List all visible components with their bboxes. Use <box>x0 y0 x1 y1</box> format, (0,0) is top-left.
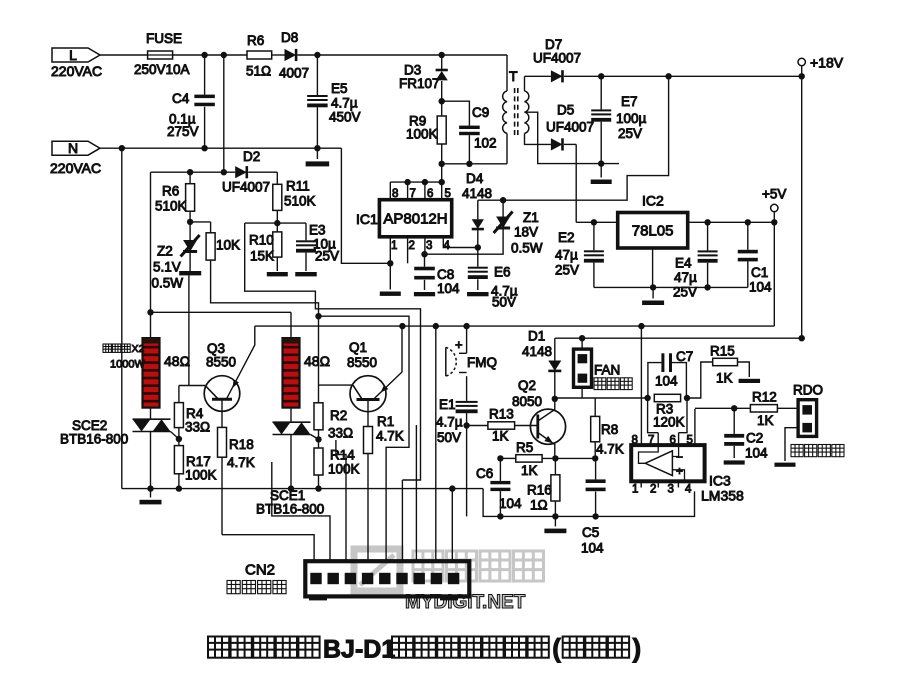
svg-text:100K: 100K <box>406 127 438 142</box>
svg-text:Z2: Z2 <box>157 244 173 259</box>
svg-text:275V: 275V <box>167 124 199 139</box>
svg-text:T: T <box>509 68 518 84</box>
svg-text:R6: R6 <box>162 184 179 199</box>
svg-text:C2: C2 <box>746 431 763 446</box>
svg-text:1000W: 1000W <box>110 359 145 371</box>
svg-text:5: 5 <box>687 435 693 447</box>
svg-text:E7: E7 <box>621 94 638 109</box>
svg-text:1K: 1K <box>716 371 733 386</box>
svg-text:Q2: Q2 <box>518 378 536 393</box>
svg-text:R2: R2 <box>330 408 347 423</box>
svg-text:D8: D8 <box>281 30 298 45</box>
svg-text:R12: R12 <box>752 390 777 405</box>
svg-text:BTB16-800: BTB16-800 <box>60 432 128 447</box>
svg-text:4.7K: 4.7K <box>596 442 624 457</box>
svg-text:8550: 8550 <box>347 355 377 370</box>
svg-text:+: + <box>455 337 463 352</box>
svg-text:R1: R1 <box>377 414 394 429</box>
svg-text:E6: E6 <box>494 265 511 280</box>
svg-text:BJ-D1: BJ-D1 <box>323 636 395 664</box>
svg-text:4.7K: 4.7K <box>376 429 404 444</box>
svg-text:E3: E3 <box>309 223 326 238</box>
svg-text:E1: E1 <box>439 397 456 412</box>
svg-text:4: 4 <box>444 240 451 252</box>
svg-text:Q1: Q1 <box>349 340 367 355</box>
svg-text:FMQ: FMQ <box>467 355 497 370</box>
svg-text:18V: 18V <box>514 225 538 240</box>
svg-text:2: 2 <box>409 240 415 252</box>
svg-text:510K: 510K <box>284 194 316 209</box>
svg-text:10K: 10K <box>216 238 240 253</box>
svg-text:C8: C8 <box>437 267 454 282</box>
svg-text:D5: D5 <box>557 103 574 118</box>
svg-text:104: 104 <box>499 496 522 511</box>
svg-text:7: 7 <box>648 435 654 447</box>
svg-text:1K: 1K <box>521 463 538 478</box>
svg-text:R13: R13 <box>489 407 514 422</box>
svg-text:E5: E5 <box>331 81 348 96</box>
svg-text:CN2: CN2 <box>245 562 275 579</box>
svg-text:104: 104 <box>437 281 460 296</box>
svg-text:FUSE: FUSE <box>146 31 182 46</box>
svg-text:25V: 25V <box>555 263 579 278</box>
svg-text:1K: 1K <box>492 429 509 444</box>
svg-text:N: N <box>68 140 78 156</box>
svg-text:R8: R8 <box>601 422 618 437</box>
svg-text:4148: 4148 <box>522 344 552 359</box>
svg-text:L: L <box>69 47 77 63</box>
svg-text:6: 6 <box>427 188 433 200</box>
svg-text:FAN: FAN <box>594 363 620 378</box>
svg-text:8: 8 <box>392 188 398 200</box>
svg-text:UF4007: UF4007 <box>533 51 581 66</box>
svg-text:25V: 25V <box>618 126 642 141</box>
svg-text:(: ( <box>552 633 561 663</box>
svg-text:4: 4 <box>685 484 692 496</box>
svg-text:7: 7 <box>410 188 416 200</box>
svg-text:250V10A: 250V10A <box>134 62 190 77</box>
svg-text:C6: C6 <box>476 466 493 481</box>
svg-text:3: 3 <box>426 240 432 252</box>
svg-text:102: 102 <box>474 136 497 151</box>
svg-text:+: + <box>676 464 683 478</box>
svg-text:104: 104 <box>581 541 604 556</box>
svg-text:+5V: +5V <box>762 187 786 202</box>
svg-text:4.7K: 4.7K <box>227 455 255 470</box>
svg-text:FR107: FR107 <box>399 76 440 91</box>
svg-text:0.5W: 0.5W <box>152 276 184 291</box>
svg-text:IC3: IC3 <box>709 473 731 489</box>
svg-text:48Ω: 48Ω <box>304 353 330 369</box>
svg-text:8550: 8550 <box>206 355 236 370</box>
svg-text:100µ: 100µ <box>616 111 647 126</box>
svg-text:IC1: IC1 <box>356 211 378 227</box>
svg-text:50V: 50V <box>437 430 461 445</box>
svg-text:48Ω: 48Ω <box>164 353 190 369</box>
svg-text:R18: R18 <box>229 437 254 452</box>
svg-text:4007: 4007 <box>279 66 309 81</box>
svg-text:D1: D1 <box>528 329 545 344</box>
svg-text:47µ: 47µ <box>555 248 578 263</box>
svg-text:78L05: 78L05 <box>632 223 674 240</box>
svg-text:104: 104 <box>655 374 678 389</box>
svg-text:R11: R11 <box>286 179 310 194</box>
svg-text:5.1V: 5.1V <box>153 260 181 275</box>
svg-text:E4: E4 <box>675 256 692 271</box>
svg-text:): ) <box>633 633 642 663</box>
svg-text:100K: 100K <box>185 468 217 483</box>
svg-text:C9: C9 <box>472 105 489 120</box>
svg-text:220VAC: 220VAC <box>50 160 101 176</box>
svg-text:3: 3 <box>668 484 674 496</box>
svg-text:33Ω: 33Ω <box>328 426 353 441</box>
svg-text:BTB16-800: BTB16-800 <box>256 502 324 517</box>
svg-text:C1: C1 <box>751 265 768 280</box>
svg-text:4148: 4148 <box>462 186 492 201</box>
svg-text:1Ω: 1Ω <box>530 498 548 513</box>
svg-text:C7: C7 <box>676 349 693 364</box>
svg-text:50V: 50V <box>492 295 516 310</box>
svg-text:8: 8 <box>632 435 638 447</box>
svg-text:1K: 1K <box>757 413 774 428</box>
svg-text:R15: R15 <box>710 344 735 359</box>
svg-text:AP8012H: AP8012H <box>383 211 447 228</box>
svg-text:47µ: 47µ <box>674 270 697 285</box>
svg-text:8050: 8050 <box>512 394 542 409</box>
svg-text:RDO: RDO <box>793 383 823 398</box>
svg-text:100K: 100K <box>328 462 360 477</box>
svg-text:2: 2 <box>650 484 656 496</box>
svg-text:0.5W: 0.5W <box>511 241 543 256</box>
svg-text:120K: 120K <box>653 415 685 430</box>
svg-text:104: 104 <box>749 280 772 295</box>
svg-text:R6: R6 <box>247 33 264 48</box>
svg-text:C5: C5 <box>582 525 599 540</box>
svg-text:450V: 450V <box>329 110 361 125</box>
svg-text:E2: E2 <box>558 230 575 245</box>
svg-text:R5: R5 <box>516 440 533 455</box>
svg-text:−: − <box>676 450 683 464</box>
svg-text:25V: 25V <box>673 285 697 300</box>
svg-text:R10: R10 <box>249 233 274 248</box>
svg-text:Z1: Z1 <box>523 210 539 225</box>
svg-text:220VAC: 220VAC <box>51 63 102 79</box>
svg-text:C4: C4 <box>172 91 190 106</box>
svg-text:LM358: LM358 <box>701 488 744 504</box>
svg-text:5: 5 <box>445 188 451 200</box>
svg-text:6: 6 <box>670 435 676 447</box>
svg-text:25V: 25V <box>315 249 339 264</box>
svg-text:15K: 15K <box>250 249 274 264</box>
svg-text:4.7µ: 4.7µ <box>436 415 463 430</box>
svg-text:D2: D2 <box>243 149 260 164</box>
svg-text:R16: R16 <box>527 483 552 498</box>
svg-text:51Ω: 51Ω <box>246 64 271 79</box>
svg-text:+18V: +18V <box>810 55 844 71</box>
svg-text:4.7µ: 4.7µ <box>331 96 358 111</box>
svg-text:510K: 510K <box>155 199 187 214</box>
svg-text:UF4007: UF4007 <box>222 180 270 195</box>
svg-text:1: 1 <box>632 484 638 496</box>
svg-text:33Ω: 33Ω <box>185 420 210 435</box>
svg-text:104: 104 <box>745 446 768 461</box>
svg-text:X2: X2 <box>132 343 145 355</box>
svg-text:IC2: IC2 <box>642 193 664 209</box>
svg-text:1: 1 <box>391 240 397 252</box>
svg-text:D4: D4 <box>466 171 484 186</box>
svg-text:UF4007: UF4007 <box>546 120 594 135</box>
